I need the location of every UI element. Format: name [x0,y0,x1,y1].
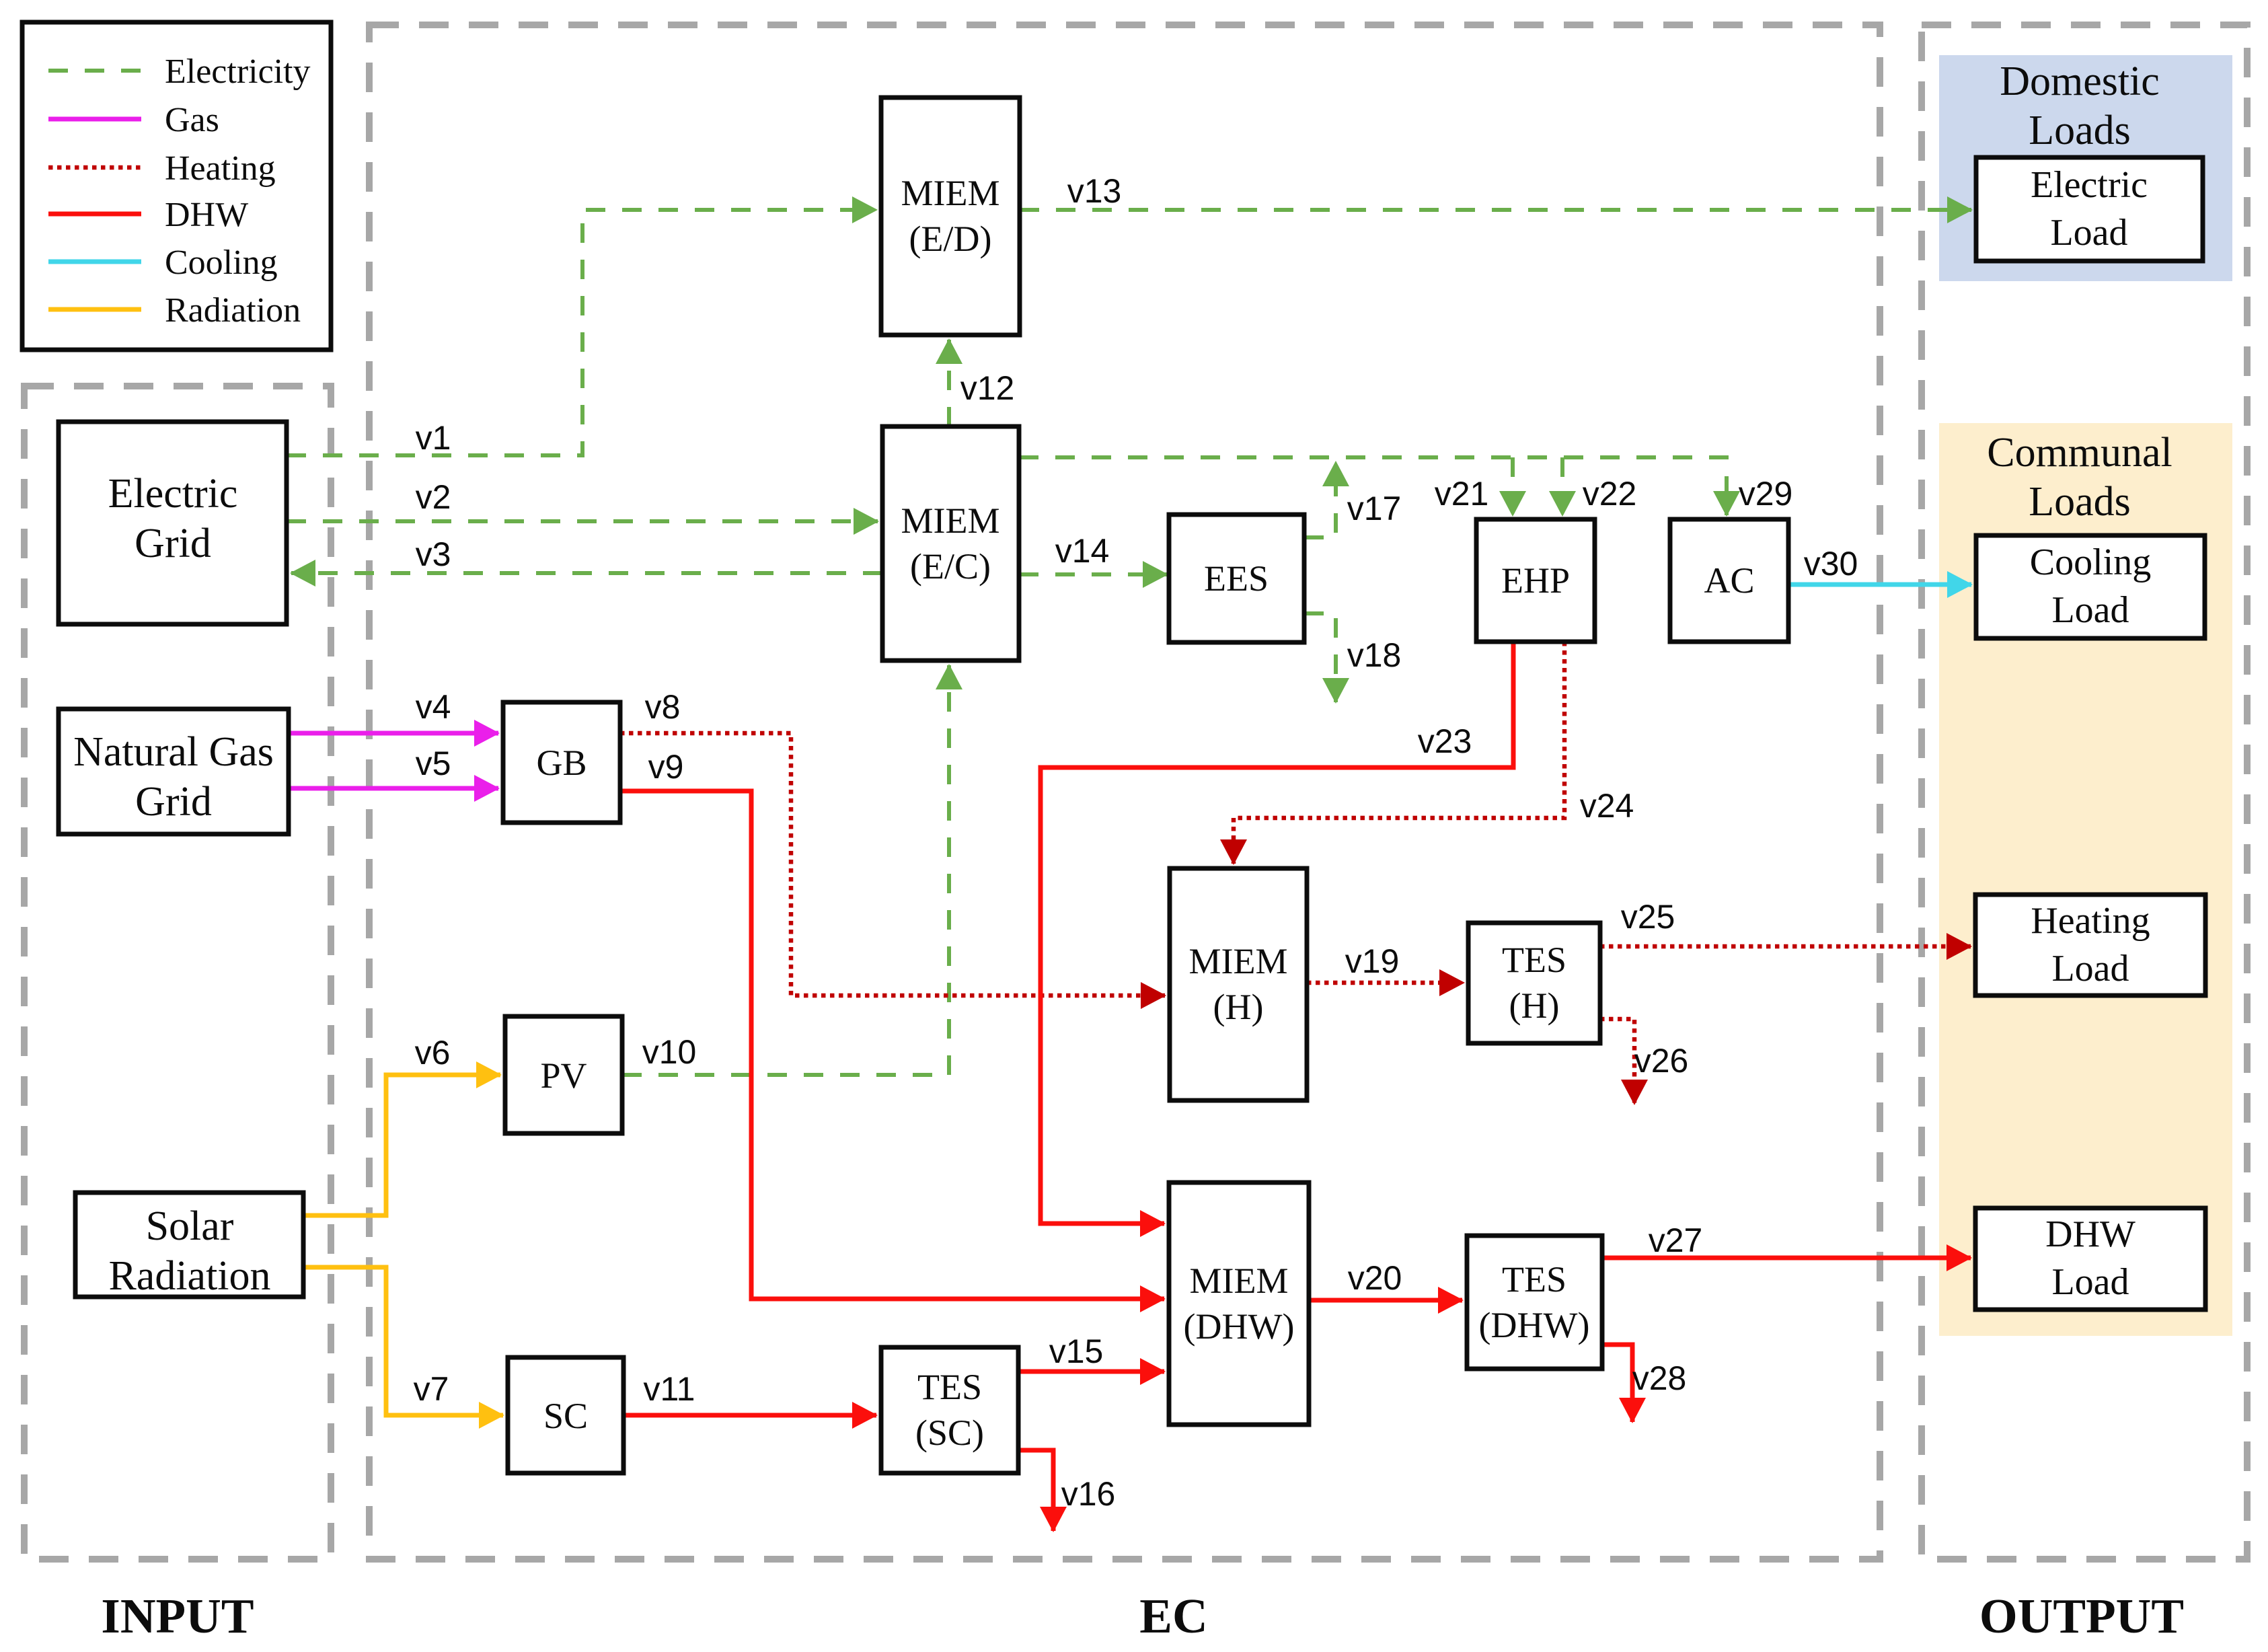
wire v15 [1020,1332,1164,1372]
svg-text:v24: v24 [1580,787,1634,825]
svg-text:Cooling: Cooling [2030,541,2151,583]
svg-text:v11: v11 [644,1370,695,1408]
svg-text:v30: v30 [1804,545,1858,583]
svg-text:OUTPUT: OUTPUT [1979,1589,2184,1643]
legend Cooling line [48,260,141,264]
container OUTPUT [1922,25,2247,1559]
wire v21 [1435,457,1513,515]
svg-text:Cooling: Cooling [165,243,278,282]
label INPUT [101,1589,254,1643]
legend DHW line [48,212,141,217]
svg-text:Load: Load [2051,589,2129,631]
wire v11 [623,1370,876,1415]
svg-text:Communal: Communal [1987,430,2172,476]
svg-text:INPUT: INPUT [101,1589,254,1643]
svg-text:v25: v25 [1621,898,1675,936]
wire v6 [303,1034,500,1215]
svg-text:v10: v10 [642,1033,697,1071]
component TES (DHW) [1467,1236,1602,1369]
svg-text:MIEM: MIEM [1190,1261,1289,1301]
component Electric Load [1976,157,2203,261]
component DHW Load [1975,1208,2205,1310]
svg-text:MIEM: MIEM [901,500,1000,541]
svg-text:(DHW): (DHW) [1184,1306,1295,1347]
svg-text:Heating: Heating [165,149,276,188]
wire v24 [1234,642,1634,864]
wire v9 [620,748,1164,1299]
wire v7 [303,1267,503,1415]
wire v8 [620,688,1165,996]
legend Radiation line [48,307,141,312]
svg-text:Electric: Electric [2031,164,2148,206]
wire v28 [1602,1345,1686,1422]
component MIEM (E/D) [881,98,1020,335]
svg-text:Solar: Solar [146,1203,234,1249]
legend box [22,22,331,350]
component TES (H) [1468,923,1600,1043]
legend Electricity line [48,69,141,73]
component TES (SC) [881,1347,1018,1473]
label EC [1139,1589,1207,1643]
svg-text:Heating: Heating [2031,900,2150,942]
wire v19 [1307,942,1464,983]
component MIEM (E/C) [882,426,1019,661]
shaded group Domestic Loads [1939,55,2232,281]
svg-text:Radiation: Radiation [108,1253,270,1299]
component MIEM (H) [1170,868,1307,1100]
component Electric Grid [59,422,287,624]
svg-text:v5: v5 [416,745,451,782]
svg-text:(E/D): (E/D) [909,219,992,259]
svg-text:v28: v28 [1632,1359,1687,1397]
svg-text:v16: v16 [1061,1475,1116,1513]
svg-text:v21: v21 [1435,475,1489,513]
container INPUT [24,386,331,1559]
wire v25 [1600,898,1971,946]
wire v20 [1309,1259,1462,1300]
wire v18 [1304,613,1401,702]
svg-text:v19: v19 [1345,942,1400,980]
wire v4 [288,688,498,733]
component SC [508,1357,623,1473]
svg-text:PV: PV [540,1055,587,1096]
svg-text:EHP: EHP [1501,560,1570,601]
svg-text:Natural Gas: Natural Gas [73,729,274,775]
svg-text:Radiation: Radiation [165,291,301,330]
component PV [505,1016,622,1133]
svg-text:Loads: Loads [2029,479,2131,525]
svg-text:(E/C): (E/C) [910,546,991,587]
svg-text:v4: v4 [416,688,451,726]
wire v22 [1562,457,1636,515]
wire v30 [1789,545,1971,585]
wire v1 [287,210,876,457]
svg-text:v6: v6 [415,1034,451,1072]
svg-text:MIEM: MIEM [901,173,1000,213]
svg-text:DHW: DHW [165,196,248,234]
svg-text:SC: SC [543,1396,588,1436]
svg-text:MIEM: MIEM [1189,941,1288,981]
svg-text:v27: v27 [1649,1222,1703,1259]
svg-text:Load: Load [2050,212,2127,254]
svg-text:v8: v8 [645,688,681,726]
legend Heating line [48,165,141,170]
wire v29 label [1739,475,1793,513]
svg-text:Grid: Grid [135,779,212,825]
svg-text:Domestic: Domestic [2000,59,2160,104]
wire v12 [949,340,1014,426]
svg-text:v12: v12 [960,369,1015,407]
svg-text:v9: v9 [648,748,684,786]
container EC [369,25,1880,1559]
wire v5 [288,745,498,788]
svg-text:v22: v22 [1583,475,1637,513]
svg-text:v7: v7 [414,1370,449,1408]
wire v16 [1020,1450,1115,1531]
component Natural Gas Grid [59,709,289,834]
component EHP [1476,519,1595,642]
svg-text:Electricity: Electricity [165,52,311,91]
svg-text:v3: v3 [416,535,451,573]
svg-text:v1: v1 [416,419,451,457]
svg-text:EC: EC [1139,1589,1207,1643]
svg-text:TES: TES [917,1367,982,1407]
svg-text:TES: TES [1502,940,1566,980]
label OUTPUT [1979,1589,2184,1643]
svg-text:v15: v15 [1049,1332,1104,1370]
svg-text:v18: v18 [1347,636,1402,674]
svg-text:TES: TES [1502,1259,1566,1300]
svg-text:AC: AC [1704,560,1754,601]
wire v14 [1019,532,1167,574]
component MIEM (DHW) [1169,1182,1309,1425]
svg-text:Loads: Loads [2029,108,2131,153]
svg-text:(DHW): (DHW) [1479,1305,1590,1345]
wire v10 [622,665,949,1075]
svg-text:v23: v23 [1418,722,1472,760]
svg-text:Electric: Electric [108,471,238,517]
wire v17 [1304,462,1401,537]
wire v23 [1041,642,1513,1224]
wire v13 [1020,172,1971,210]
wire v26 [1600,1019,1688,1104]
legend Gas line [48,117,141,122]
component AC [1670,519,1788,642]
svg-text:v13: v13 [1067,172,1122,210]
shaded group Communal Loads [1939,423,2232,1336]
svg-text:v29: v29 [1739,475,1793,513]
svg-text:DHW: DHW [2045,1213,2135,1255]
wire v2 [287,478,878,521]
svg-text:v2: v2 [416,478,451,516]
svg-text:Grid: Grid [135,521,211,566]
component Heating Load [1975,895,2205,996]
svg-text:(H): (H) [1509,985,1560,1026]
svg-text:Load: Load [2051,948,2129,989]
svg-text:Gas: Gas [165,101,219,139]
wire MIEM(E/C) to EHP/AC electricity bus [1019,457,1727,515]
svg-text:EES: EES [1204,558,1269,599]
svg-text:v17: v17 [1347,490,1402,527]
wire v3 [291,535,882,573]
wire v27 [1602,1222,1971,1259]
svg-text:(SC): (SC) [915,1413,984,1453]
svg-text:v14: v14 [1055,532,1110,570]
component Solar Radiation [75,1193,303,1299]
component Cooling Load [1976,535,2205,638]
component GB [503,702,620,823]
svg-text:v26: v26 [1634,1042,1689,1080]
svg-text:(H): (H) [1213,987,1264,1027]
svg-text:Load: Load [2051,1261,2129,1303]
component EES [1169,515,1304,642]
svg-text:GB: GB [536,743,587,783]
svg-text:v20: v20 [1348,1259,1402,1297]
